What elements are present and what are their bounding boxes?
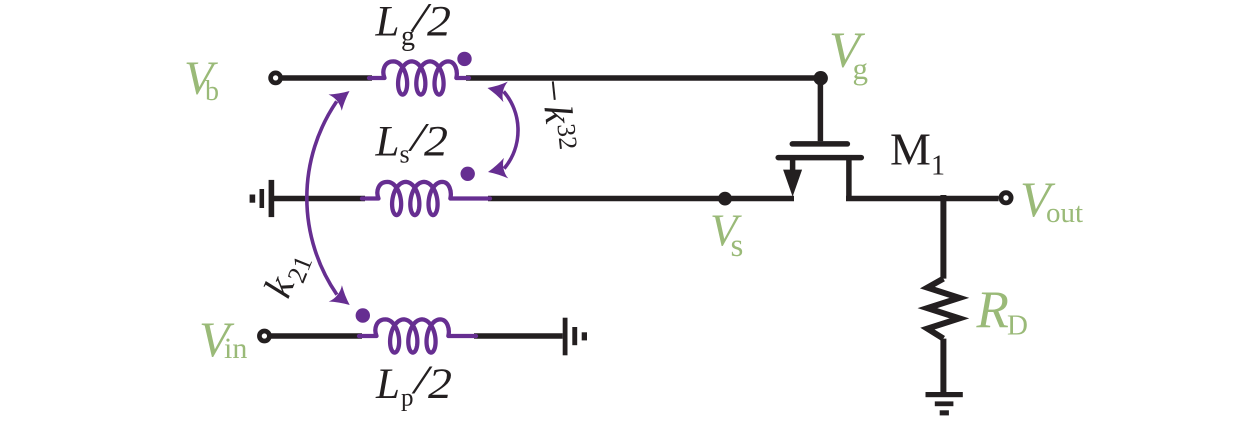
resistor RD — [927, 195, 959, 393]
node Vs (junction dot) — [718, 192, 732, 206]
label Vs — [710, 205, 743, 264]
wire Vin terminal to Lp/2 — [271, 333, 362, 339]
coupling arrow -k32 — [485, 78, 518, 183]
svg-text:s: s — [400, 139, 410, 168]
svg-text:1: 1 — [931, 151, 945, 182]
svg-text:p: p — [401, 385, 414, 412]
svg-text:2: 2 — [427, 0, 451, 46]
ground (middle left) — [250, 180, 275, 217]
svg-text:2: 2 — [428, 361, 452, 408]
label -k32 (rotated) — [530, 74, 585, 153]
svg-text:b: b — [205, 76, 219, 107]
svg-text:L: L — [375, 0, 400, 46]
label Vg — [829, 23, 868, 86]
svg-text:D: D — [1007, 310, 1028, 342]
label Lp/2 — [375, 357, 452, 412]
label Vb — [184, 52, 219, 107]
svg-text:g: g — [853, 51, 869, 86]
terminal Vout — [1001, 193, 1011, 203]
polarity dot Lp — [356, 308, 370, 322]
wire Ls/2 to M1 source (through node Vs) — [488, 196, 794, 202]
label RD — [976, 281, 1028, 341]
label Lg/2 — [375, 0, 452, 52]
label k21 (rotated) — [255, 244, 319, 305]
svg-text:L: L — [375, 361, 400, 408]
svg-text:M: M — [890, 124, 931, 175]
wire Lp/2 to ground — [474, 333, 563, 339]
wire ground to Ls/2 — [274, 196, 365, 202]
svg-text:s: s — [731, 228, 744, 264]
wire node Vg to M1 gate — [818, 78, 824, 141]
terminal Vin — [259, 331, 269, 341]
polarity dot Lg — [457, 52, 471, 66]
inductor Lg/2 — [369, 61, 469, 94]
label Ls/2 — [375, 114, 449, 168]
inductor Lp/2 — [359, 319, 476, 352]
svg-text:in: in — [224, 332, 247, 365]
svg-text:out: out — [1046, 197, 1083, 229]
svg-text:L: L — [375, 118, 400, 165]
transistor M1 (gate plate, channel, source arrow, drain) — [778, 144, 861, 199]
polarity dot Ls — [461, 167, 475, 181]
svg-text:32: 32 — [551, 122, 583, 151]
coupling arrow k21 — [307, 83, 356, 313]
terminal Vb — [271, 73, 281, 83]
wire Lg/2 to node Vg — [466, 75, 821, 81]
label M1 — [890, 124, 945, 182]
inductor Ls/2 — [362, 182, 490, 215]
ground (below RD) — [926, 392, 963, 415]
wire Vb terminal to Lg/2 — [283, 75, 373, 81]
ground (right of Lp) — [563, 318, 587, 356]
svg-text:−: − — [530, 74, 578, 106]
label Vin — [199, 311, 247, 367]
svg-text:2: 2 — [424, 118, 448, 165]
svg-text:R: R — [976, 281, 1009, 339]
node Vg (junction dot) — [814, 71, 828, 85]
wire M1 drain to Vout terminal (junction to RD) — [846, 196, 999, 202]
label Vout — [1020, 171, 1083, 229]
